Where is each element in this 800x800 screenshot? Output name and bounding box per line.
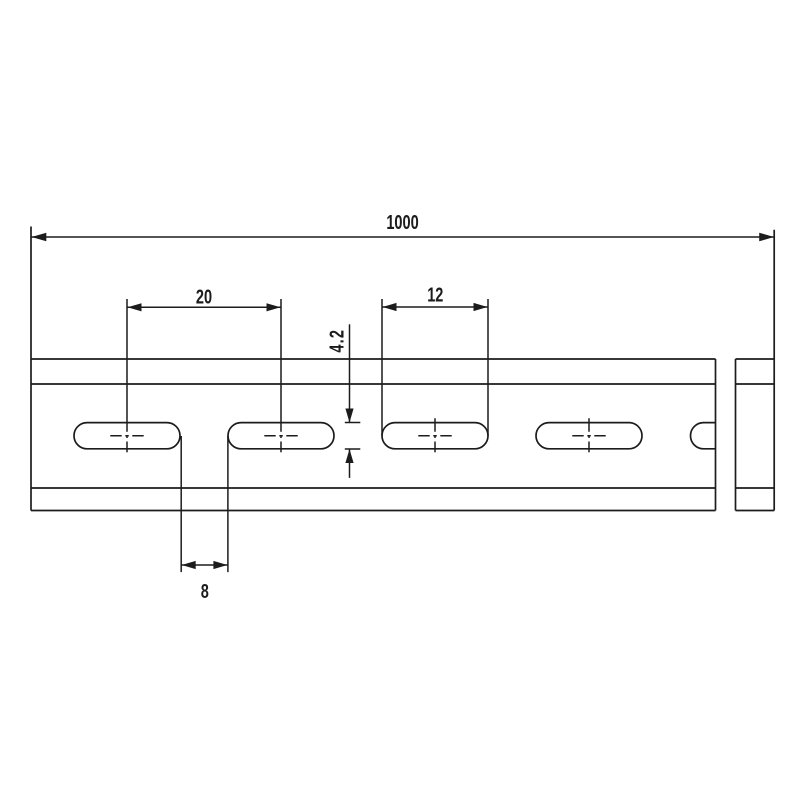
slot 5 (clipped by rail right edge) <box>691 423 716 449</box>
dim 12 left arrowhead <box>383 303 397 311</box>
svg-text:8: 8 <box>201 580 209 603</box>
dim 20 left extension line (through slot 1 center) <box>126 299 128 432</box>
dim 12 right arrowhead <box>474 303 488 311</box>
dim 1000 right arrowhead <box>759 233 774 242</box>
dim 1000 line <box>32 236 775 238</box>
dim 20 line <box>127 306 281 308</box>
dim 20 left arrowhead <box>128 303 142 311</box>
svg-text:4.2: 4.2 <box>325 329 348 353</box>
rail inner top line <box>31 383 716 385</box>
dim 4.2 bottom tick <box>345 448 361 450</box>
slot 2 centerline cross <box>264 435 297 437</box>
dim 20 right arrowhead <box>267 303 281 311</box>
rail bottom edge <box>31 510 716 512</box>
dim 20 right extension line (through slot 2 center) <box>280 299 282 432</box>
rail inner bottom line <box>31 487 716 489</box>
svg-text:1000: 1000 <box>386 211 419 234</box>
dim 8 right arrowhead <box>213 561 227 569</box>
end piece bottom edge <box>736 510 775 512</box>
dim 12 line <box>382 306 488 308</box>
svg-text:12: 12 <box>427 283 443 306</box>
dim 4.2 upper line <box>349 324 351 422</box>
svg-text:20: 20 <box>196 285 212 308</box>
slot 3 centerline cross <box>418 435 451 437</box>
end piece inner top line <box>736 383 775 385</box>
slot 3 <box>382 423 488 449</box>
dim 4.2 upper arrowhead (pointing down) <box>345 409 353 423</box>
dim 8 line <box>181 564 228 566</box>
slot 4 centerline cross <box>572 435 605 437</box>
dim 4.2 top tick <box>345 422 361 424</box>
dim 12 right extension line <box>487 299 489 436</box>
end piece inner bottom line <box>736 487 775 489</box>
rail top edge <box>31 358 716 360</box>
end piece top edge <box>736 358 775 360</box>
dim 4.2 lower arrowhead (pointing up) <box>345 449 353 463</box>
slot 4 <box>536 423 642 449</box>
dim 12 left extension line <box>381 299 383 436</box>
end piece right edge (merged with 1000 dim right extension line) <box>773 230 775 511</box>
dim 8 right extension line <box>227 436 229 572</box>
dim 4.2 lower line <box>349 449 351 478</box>
slot 1 centerline cross <box>110 435 143 437</box>
dim 8 left arrowhead <box>182 561 196 569</box>
rail left edge (merged with 1000 dim left extension line) <box>30 227 32 511</box>
dim 8 left extension line <box>180 436 182 572</box>
end piece left edge <box>735 359 737 511</box>
rail right edge <box>715 359 717 511</box>
slot 2 <box>228 423 334 449</box>
dim 1000 left arrowhead <box>32 233 47 242</box>
slot 1 <box>74 423 180 449</box>
